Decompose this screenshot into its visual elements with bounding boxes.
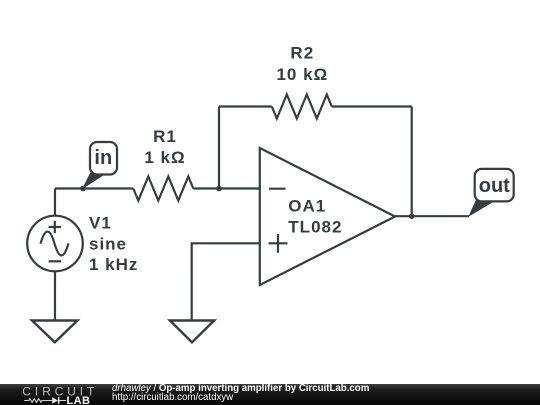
svg-text:OA1: OA1: [288, 197, 326, 216]
svg-text:1 kHz: 1 kHz: [89, 255, 138, 274]
wire feedback right vertical: [411, 107, 413, 217]
logo schematic line with resistor and diode: [24, 399, 66, 403]
V1 minus sign: [49, 260, 61, 262]
svg-text:R2: R2: [290, 44, 314, 63]
wire non-inverting input to ground: [192, 243, 260, 320]
svg-text:V1: V1: [89, 214, 112, 233]
svg-text:http://circuitlab.com/catdxyw: http://circuitlab.com/catdxyw: [112, 392, 234, 403]
svg-text:in: in: [94, 147, 112, 169]
wire main horizontal input net: [55, 187, 260, 189]
wire top left to R2: [219, 105, 272, 107]
logo diode symbol: [52, 397, 58, 404]
wire R1 to op-amp inverting input: [193, 187, 259, 189]
wire V1 top vertical: [54, 189, 56, 217]
node junction dot output: [409, 213, 415, 219]
svg-text:10 kΩ: 10 kΩ: [276, 65, 328, 84]
ground (V1): [32, 321, 78, 343]
node junction dot inverting input: [216, 186, 222, 192]
flag "in" box: [90, 142, 117, 175]
flag "in" pointer: [82, 173, 104, 190]
wire V1 bottom vertical: [54, 271, 56, 320]
node junction dot at in flag: [80, 186, 86, 192]
svg-text:R1: R1: [153, 127, 177, 146]
flag "out" pointer: [468, 200, 492, 217]
wire op-amp output: [395, 215, 469, 217]
svg-text:LAB: LAB: [67, 395, 91, 405]
op-amp minus input symbol: [269, 188, 286, 190]
svg-text:1 kΩ: 1 kΩ: [144, 148, 185, 167]
svg-text:sine: sine: [89, 234, 127, 253]
V1 plus sign: [49, 226, 61, 228]
wire feedback left vertical: [218, 107, 220, 189]
op-amp plus input symbol: [269, 242, 288, 244]
ground (non-inverting input): [170, 321, 214, 343]
resistor R2: [272, 95, 332, 119]
V1 sine symbol: [41, 232, 69, 256]
voltage source V1 circle: [27, 216, 83, 272]
wire R2 to right vertical: [332, 105, 412, 107]
svg-text:out: out: [479, 175, 510, 197]
resistor R1: [133, 177, 193, 201]
svg-text:TL082: TL082: [288, 218, 342, 237]
flag "out" box: [475, 169, 514, 202]
op-amp OA1 triangle: [260, 148, 395, 285]
